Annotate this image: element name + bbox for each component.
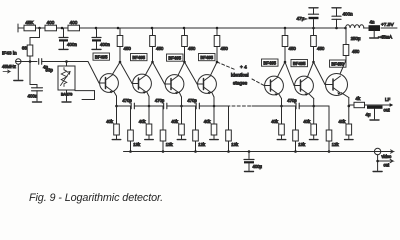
- svg-text:BF495: BF495: [168, 56, 181, 61]
- svg-text:470p: 470p: [155, 98, 165, 103]
- svg-text:out: out: [384, 163, 391, 168]
- svg-text:IF43 in: IF43 in: [2, 51, 17, 57]
- svg-text:13k: 13k: [166, 142, 174, 147]
- svg-text:450: 450: [124, 46, 132, 51]
- svg-text:40k: 40k: [204, 119, 212, 124]
- svg-text:13k: 13k: [231, 142, 239, 147]
- svg-text:13k: 13k: [298, 142, 306, 147]
- svg-text:400: 400: [47, 20, 55, 25]
- svg-text:40k: 40k: [271, 119, 279, 124]
- svg-text:Fig. 9 - Logarithmic detecto: Fig. 9 - Logarithmic detector.: [29, 192, 163, 204]
- svg-text:45MHz: 45MHz: [2, 64, 16, 69]
- svg-text:~45mA: ~45mA: [378, 35, 392, 40]
- svg-text:40k: 40k: [303, 119, 311, 124]
- svg-text:BF495: BF495: [293, 61, 306, 66]
- svg-text:40k: 40k: [139, 119, 147, 124]
- svg-text:4μ: 4μ: [366, 112, 371, 117]
- svg-text:450: 450: [352, 49, 360, 54]
- svg-text:470p: 470p: [187, 98, 197, 103]
- svg-text:13k: 13k: [133, 142, 141, 147]
- svg-text:400n: 400n: [28, 94, 38, 99]
- svg-text:stages: stages: [233, 81, 248, 87]
- svg-text:4n: 4n: [370, 20, 375, 25]
- svg-text:BF450: BF450: [331, 62, 344, 67]
- svg-text:250μ: 250μ: [351, 36, 361, 41]
- svg-text:+7.5V: +7.5V: [381, 22, 394, 28]
- svg-text:400n: 400n: [343, 12, 354, 17]
- svg-text:470p: 470p: [122, 98, 132, 103]
- svg-text:450: 450: [221, 46, 229, 51]
- svg-text:450: 450: [317, 46, 325, 51]
- svg-text:470p: 470p: [287, 98, 297, 103]
- svg-text:68: 68: [22, 46, 28, 51]
- svg-text:400: 400: [70, 20, 78, 25]
- svg-text:BF495: BF495: [95, 55, 108, 60]
- svg-text:400μ: 400μ: [253, 164, 263, 169]
- svg-text:12k: 12k: [198, 142, 206, 147]
- svg-text:53p: 53p: [46, 68, 54, 73]
- svg-text:identical: identical: [231, 73, 249, 79]
- svg-text:BF495: BF495: [200, 55, 213, 60]
- svg-text:400n: 400n: [67, 42, 77, 47]
- svg-text:LF: LF: [385, 97, 390, 102]
- svg-text:40k: 40k: [339, 119, 347, 124]
- svg-text:12k: 12k: [332, 142, 340, 147]
- svg-text:40k: 40k: [106, 119, 114, 124]
- svg-text:BF495: BF495: [132, 55, 145, 60]
- svg-text:out: out: [384, 108, 391, 113]
- svg-text:video: video: [382, 154, 393, 159]
- svg-text:450: 450: [156, 46, 164, 51]
- svg-text:450: 450: [188, 46, 196, 51]
- svg-text:47μ: 47μ: [297, 16, 305, 21]
- svg-text:4k: 4k: [356, 96, 361, 101]
- svg-text:+ 4: + 4: [240, 65, 247, 71]
- svg-text:400n: 400n: [100, 42, 110, 47]
- svg-text:450: 450: [289, 46, 297, 51]
- svg-text:BF495: BF495: [263, 61, 276, 66]
- svg-text:40k: 40k: [171, 119, 179, 124]
- svg-text:45K: 45K: [25, 20, 34, 25]
